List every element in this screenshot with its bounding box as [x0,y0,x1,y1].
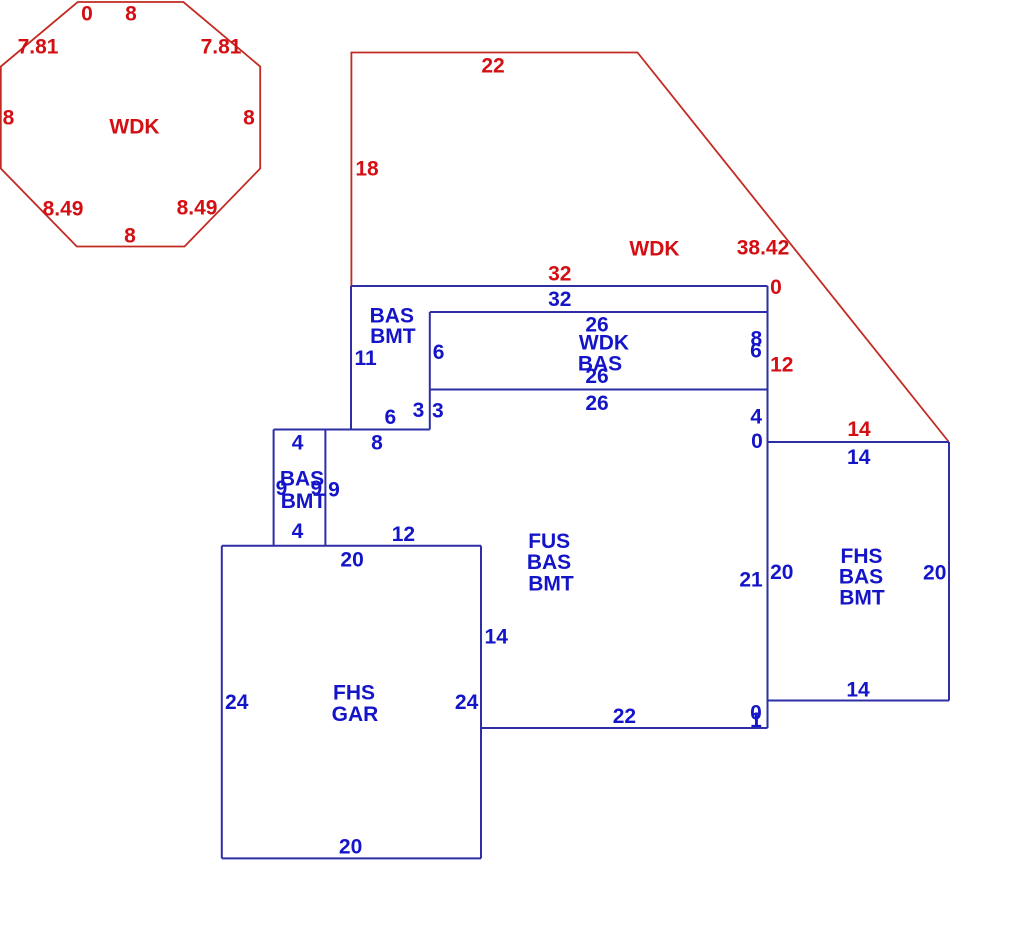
svg-text:8: 8 [125,3,137,26]
svg-text:11: 11 [354,347,377,370]
svg-text:8: 8 [243,107,255,130]
svg-text:3: 3 [432,399,444,422]
svg-text:BMT: BMT [839,586,885,609]
svg-text:8: 8 [124,225,136,248]
octagon deck WDK outline [1,2,260,247]
svg-text:12: 12 [392,523,415,546]
svg-text:21: 21 [739,569,763,592]
svg-text:8: 8 [3,107,15,130]
svg-text:8.49: 8.49 [43,198,84,221]
svg-text:0: 0 [81,3,93,26]
svg-text:BMT: BMT [370,325,416,348]
svg-text:22: 22 [613,705,636,728]
svg-text:20: 20 [339,835,362,858]
svg-text:14: 14 [485,626,509,649]
main top wall y=286 [351,285,768,287]
gar left wall x=221.8 [221,546,223,859]
svg-text:20: 20 [923,562,946,585]
svg-text:18: 18 [355,158,379,181]
svg-text:WDK: WDK [629,238,679,261]
svg-text:BMT: BMT [528,572,574,595]
svg-text:7.81: 7.81 [18,36,59,59]
svg-text:GAR: GAR [332,703,379,726]
svg-text:26: 26 [585,392,608,415]
small box left wall x=273.6 [273,430,275,546]
svg-text:3: 3 [413,399,425,422]
svg-text:4: 4 [292,431,304,454]
gar top wall y=545.8 [222,545,481,547]
svg-text:32: 32 [548,263,571,286]
fhs box top wall y=442 [768,441,950,443]
left wall x=351 [350,286,352,430]
large red deck outline (open polyline) [351,53,948,442]
svg-text:WDK: WDK [579,332,629,355]
svg-text:12: 12 [770,354,793,377]
svg-text:6: 6 [433,341,445,364]
svg-text:7.81: 7.81 [201,36,242,59]
svg-text:32: 32 [548,288,571,311]
svg-text:0: 0 [770,276,782,299]
svg-text:6: 6 [384,406,396,429]
svg-text:BMT: BMT [281,490,327,513]
svg-text:6: 6 [750,339,762,362]
wdk box bottom wall y=389.5 [430,389,768,391]
svg-text:WDK: WDK [109,116,159,139]
svg-text:0: 0 [751,430,763,453]
svg-text:14: 14 [846,679,870,702]
svg-text:20: 20 [770,561,793,584]
fhs box right wall x=949 [948,442,950,701]
long right wall x=767.5 [767,286,769,728]
step wall y=429.5 [274,429,430,431]
svg-text:38.42: 38.42 [737,237,790,260]
svg-text:22: 22 [481,55,504,78]
svg-text:26: 26 [585,365,608,388]
svg-text:24: 24 [455,691,479,714]
gar bottom wall y=858.4 [222,857,481,859]
small box right wall x=325.4 [324,430,326,546]
wdk box top wall y=312 [430,311,768,313]
svg-text:14: 14 [847,418,871,441]
svg-text:14: 14 [847,446,871,469]
svg-text:24: 24 [225,691,249,714]
svg-text:1: 1 [750,709,762,732]
fhs box bottom wall y=700.5 [768,700,950,702]
svg-text:BAS: BAS [370,304,414,327]
wall x=429.8 (wdk box left and step) [429,312,431,430]
svg-text:FUS: FUS [528,530,570,553]
svg-text:4: 4 [750,406,762,429]
svg-text:BAS: BAS [839,565,883,588]
svg-text:BAS: BAS [527,551,571,574]
gar right / fus left wall x=481 [480,546,482,859]
svg-text:4: 4 [292,520,304,543]
fus bottom wall y=728 [481,727,768,729]
svg-text:9: 9 [328,479,340,502]
svg-text:8.49: 8.49 [177,197,218,220]
svg-text:FHS: FHS [333,682,375,705]
svg-text:20: 20 [340,548,363,571]
svg-text:8: 8 [371,431,383,454]
